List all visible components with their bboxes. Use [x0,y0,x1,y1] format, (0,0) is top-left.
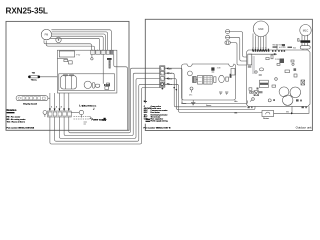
svg-text:2: 2 [161,74,162,76]
svg-text:PCB1: PCB1 [275,59,279,61]
svg-text:F1U: F1U [76,54,80,56]
svg-text:Wh: Wh [169,68,172,70]
svg-text:RXN25-35L: RXN25-35L [6,6,48,15]
svg-text:HL3 HN3: HL3 HN3 [279,47,286,49]
svg-text:3: 3 [161,79,162,81]
svg-text:M1F: M1F [258,27,264,31]
svg-text:Blk: Blk [235,112,238,114]
svg-text:S40: S40 [293,47,296,49]
svg-text:Green: Green [181,103,186,105]
svg-text:FM: FM [45,34,48,37]
svg-text:S80: S80 [286,111,289,113]
svg-text:M1C: M1C [303,28,309,32]
svg-text:X1M: X1M [217,67,221,69]
svg-text:Deicer: Deicer [263,118,269,120]
svg-text:1: 1 [161,69,162,71]
svg-text:Outdoor unit: Outdoor unit [296,125,312,129]
svg-text:Green: Green [206,105,211,107]
svg-text:Blu: Blu [235,101,238,103]
